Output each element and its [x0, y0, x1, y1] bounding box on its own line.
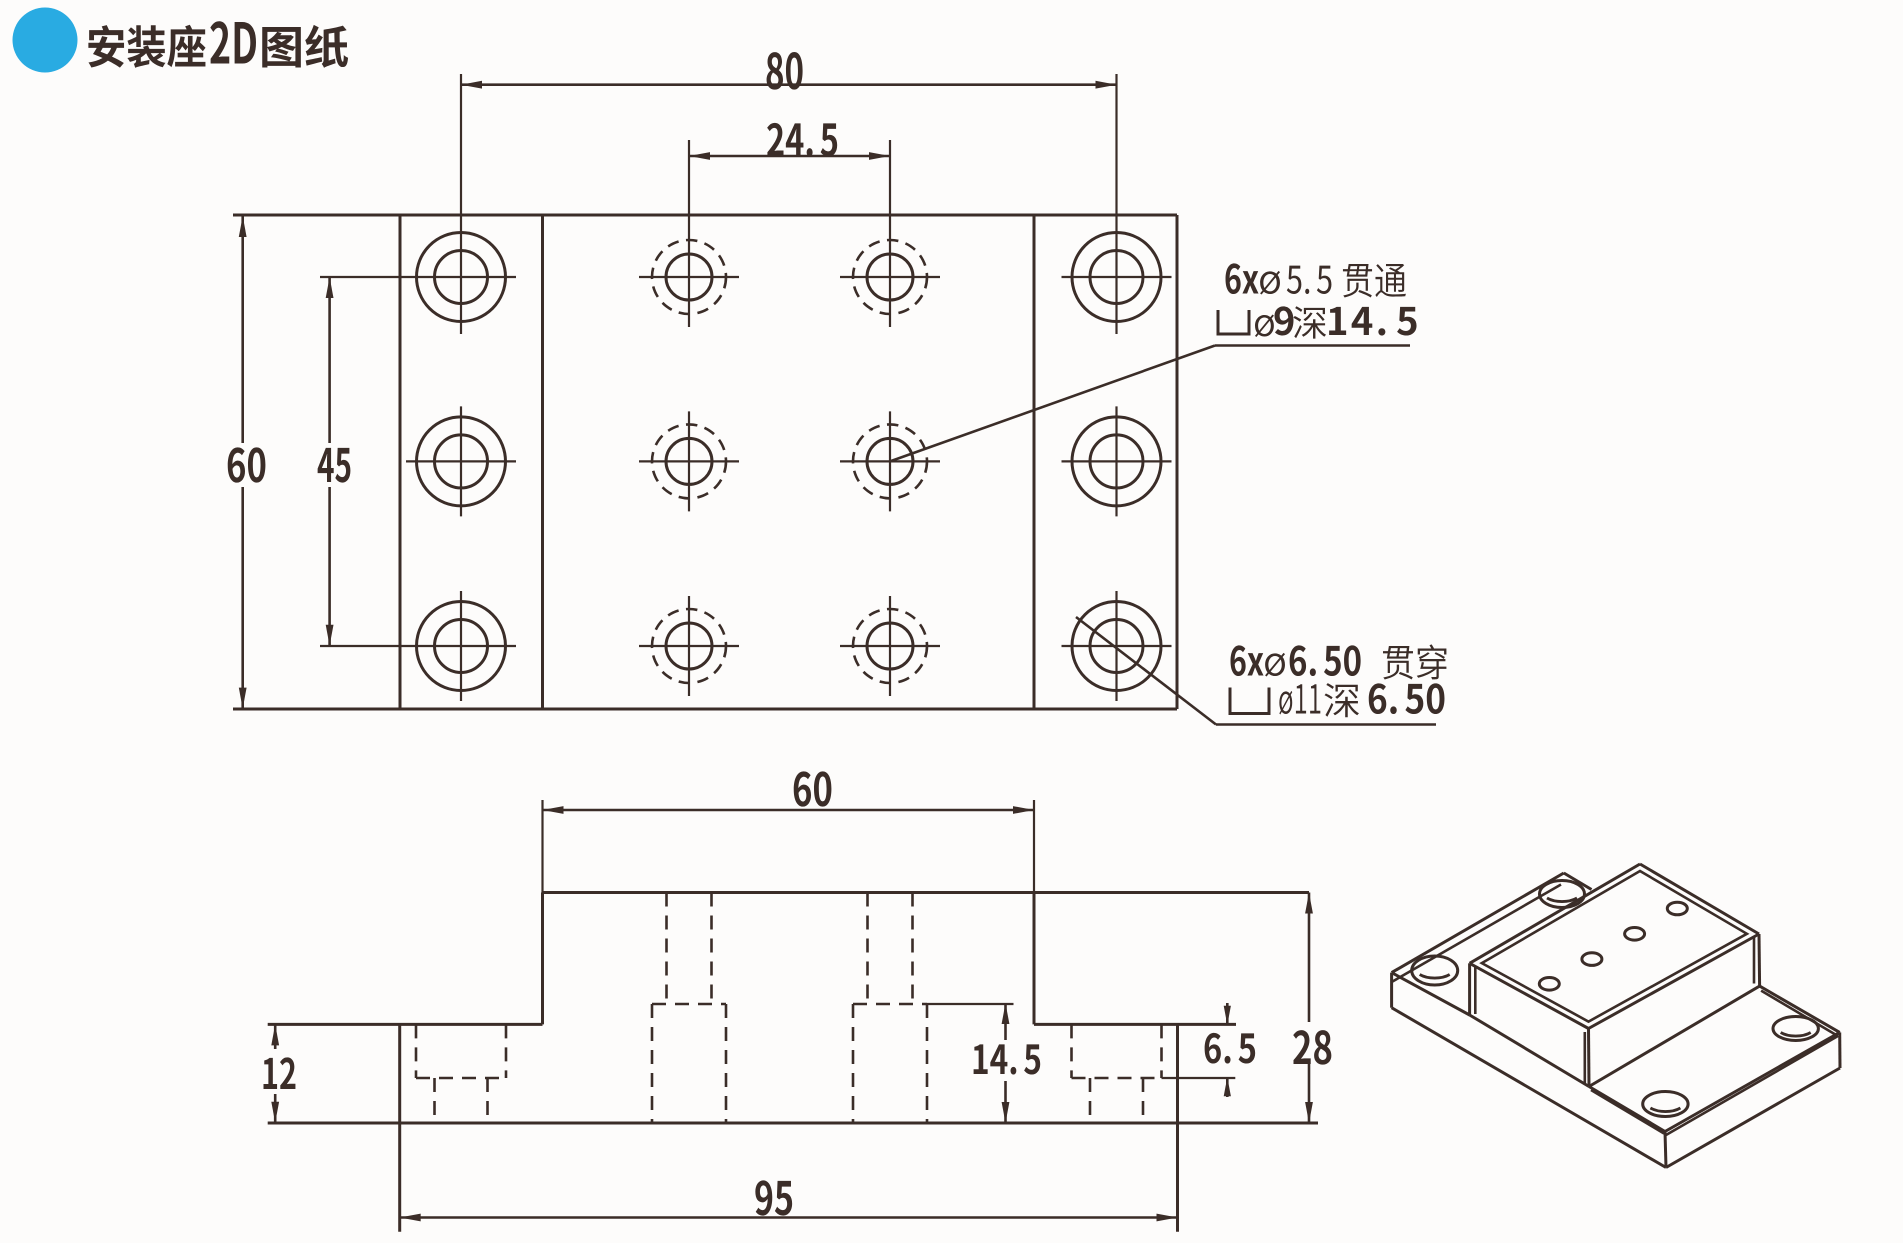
leader line 2 [1216, 723, 1436, 726]
title text 安装座2D图纸 [88, 25, 205, 68]
top view plate outline [233, 214, 1177, 217]
isometric chamfer lines [1482, 871, 1747, 1022]
title blue dot [13, 8, 78, 73]
hidden holes center columns [665, 893, 668, 1005]
isometric inner edges [1392, 973, 1470, 1015]
dimension 14.5 [1004, 1003, 1007, 1040]
top view step lines [541, 215, 544, 709]
front view outline [543, 891, 1310, 894]
isometric counterbore holes [1540, 881, 1585, 908]
dimension 95 [400, 1216, 1178, 1219]
hole crosshairs [460, 406, 462, 516]
annotation 6xø5.5 贯通 [1226, 263, 1259, 294]
counterbore symbol 2 [1230, 688, 1269, 714]
middle dashed holes 6x ø5.5 / ø9 [666, 254, 712, 300]
corner counterbore holes 6x ø6.50 / ø11 [417, 233, 506, 322]
hidden holes flange columns [415, 1024, 418, 1078]
isometric view outline [1392, 873, 1564, 973]
shoulder extension to 6.5 dim [1162, 1077, 1236, 1079]
annotation 6xø6.50 贯穿 [1231, 645, 1264, 676]
dimension 60 (top view height) [241, 216, 244, 443]
dimension 12 [274, 1024, 277, 1049]
counterbore shoulder extension to 14.5 dim [927, 1003, 1014, 1005]
dimension 80 [461, 83, 1117, 86]
dimension 6.5 [1226, 1003, 1229, 1025]
counterbore symbol [1218, 310, 1249, 334]
middle hole crosshairs [688, 411, 690, 511]
dimension 60 (front) [543, 809, 1035, 812]
dimension 28 [1308, 893, 1311, 1023]
dimension 24.5 [689, 155, 890, 158]
leader line 1 [1215, 344, 1410, 347]
dimension 45 [328, 277, 331, 443]
isometric top small holes [1539, 978, 1559, 991]
